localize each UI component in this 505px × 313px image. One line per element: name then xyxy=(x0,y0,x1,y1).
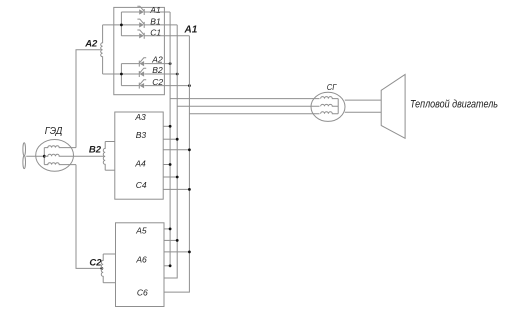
wire generator to engine lower xyxy=(345,111,381,113)
svg-text:C2: C2 xyxy=(89,258,102,269)
junction reactor C2 tap xyxy=(100,267,103,270)
thyristor VS-A1 xyxy=(137,6,144,15)
wire generator to engine upper xyxy=(345,99,381,101)
wire A1 to bus A xyxy=(144,11,170,13)
wire B1 to bus B xyxy=(144,24,177,26)
wire motor phase1 up to reactor A2 tap xyxy=(76,50,101,148)
propeller xyxy=(23,143,26,169)
svg-text:A1: A1 xyxy=(184,25,198,36)
svg-text:A1: A1 xyxy=(149,5,161,15)
wire C2 to bus C xyxy=(144,85,189,87)
motor winding phase 1 xyxy=(44,146,76,148)
wire row C2 xyxy=(121,85,139,87)
generator winding phase A xyxy=(321,97,339,99)
junction bus A mid row1 xyxy=(169,125,172,128)
wire mid row2 to bus B xyxy=(163,138,177,140)
svg-text:C4: C4 xyxy=(136,180,147,190)
wire A2 to bus A xyxy=(144,63,170,65)
wire reactor B2 bottom to box xyxy=(105,169,115,171)
motor U-GED body (ГЭД) xyxy=(36,140,74,172)
junction bus A bot row4 xyxy=(169,264,172,267)
thyristor VS-B1 xyxy=(137,19,144,28)
svg-text:B2: B2 xyxy=(89,144,102,155)
thyristor VS-C1 xyxy=(137,30,144,39)
wire row B1 from reactor top to bracket1 and thyristor xyxy=(103,24,140,26)
thyristor VS-B2 reversed xyxy=(139,68,146,77)
junction bus B mid row2 xyxy=(176,138,179,141)
wire mid row3 to bus C xyxy=(163,149,189,151)
wire shaft propeller to motor xyxy=(26,155,44,157)
wire motor phase3 down to reactor C2 tap xyxy=(76,165,102,269)
wire mid row4 to bus A xyxy=(163,164,170,166)
wire reactor C2 bottom to box xyxy=(103,282,115,284)
generator winding bracket xyxy=(337,99,339,114)
wire bot row1 to bus A xyxy=(164,228,170,230)
bus B vertical xyxy=(164,25,177,278)
thyristor VS-A2 reversed xyxy=(139,58,146,67)
wire row A1 xyxy=(121,11,139,13)
svg-text:B3: B3 xyxy=(136,130,147,140)
bus A vertical xyxy=(169,12,171,266)
junction bus A mid row4 xyxy=(169,163,172,166)
junction bus C row C2 xyxy=(188,84,191,87)
junction bus C mid row6 xyxy=(188,188,191,191)
reactor L-A2 coil xyxy=(101,25,103,74)
converter box VT3 (bottom) xyxy=(116,223,165,307)
thyristor VS-C2 reversed xyxy=(139,80,146,89)
wire B2 to bus B xyxy=(144,73,177,75)
svg-text:A2: A2 xyxy=(84,39,98,50)
svg-text:A4: A4 xyxy=(134,159,146,169)
wire bot row2 to bus B xyxy=(164,239,177,241)
svg-text:A2: A2 xyxy=(151,54,163,64)
wire bot row3 to bus C xyxy=(164,251,189,253)
generator SG body (СГ) xyxy=(311,92,345,121)
generator winding phase C xyxy=(321,112,339,114)
wire mid row5 to bus B xyxy=(163,176,177,178)
wire reactor C2 top to box xyxy=(103,253,115,255)
wire mid row1 to bus A xyxy=(163,125,170,127)
junction bracket2 row B2 xyxy=(120,73,123,76)
converter box VT1 (top) xyxy=(114,7,165,94)
wire row B2 from reactor bottom to bracket2 and thyristor xyxy=(103,73,140,75)
junction bus C bot row3 xyxy=(188,251,191,254)
bracket group 1 anodes xyxy=(120,12,122,36)
converter box VT2 (middle) xyxy=(115,112,163,199)
junction bus C mid row3 xyxy=(188,148,191,151)
node motor star point xyxy=(43,155,46,158)
svg-text:Тепловой двигатель: Тепловой двигатель xyxy=(410,98,498,110)
svg-text:СГ: СГ xyxy=(327,82,338,92)
junction bus A bot row1 xyxy=(169,228,172,231)
wire bot row4 to bus A xyxy=(164,265,170,267)
wire phase B to generator xyxy=(177,105,319,107)
svg-text:A3: A3 xyxy=(134,112,146,122)
motor winding bracket xyxy=(43,148,45,165)
generator winding phase B xyxy=(321,104,339,106)
wire row A2 xyxy=(121,63,139,65)
junction bus A row A2 xyxy=(169,62,172,65)
svg-text:A5: A5 xyxy=(135,226,147,236)
reactor L-C2 coil xyxy=(101,254,103,283)
junction bus B mid row5 xyxy=(176,176,179,179)
junction bus B row B2 xyxy=(176,73,179,76)
wire row C1 xyxy=(121,35,139,37)
junction bracket1 row B1 xyxy=(120,24,123,27)
bracket group 2 xyxy=(120,64,122,86)
wire reactor B2 top to box xyxy=(105,141,115,143)
wire phase A to generator xyxy=(170,98,319,100)
bus C vertical xyxy=(164,36,189,292)
svg-text:ГЭД: ГЭД xyxy=(45,126,63,137)
junction bus B bot row2 xyxy=(176,239,179,242)
motor winding phase 2 xyxy=(44,154,103,156)
reactor L-B2 coil xyxy=(103,142,105,171)
wire mid row6 to bus C xyxy=(163,188,189,190)
wire phase C to generator xyxy=(189,113,319,115)
svg-text:B2: B2 xyxy=(152,65,163,75)
motor winding phase 3 xyxy=(44,163,76,165)
heat engine body (Тепловой двигатель) xyxy=(381,74,405,138)
svg-text:C6: C6 xyxy=(137,288,148,298)
wire C1 to bus C xyxy=(144,35,189,37)
svg-text:A6: A6 xyxy=(135,255,147,265)
